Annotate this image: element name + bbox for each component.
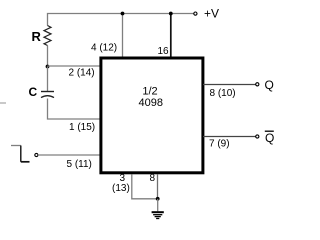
svg-text:(13): (13) xyxy=(112,183,130,194)
svg-text:16: 16 xyxy=(158,46,170,57)
svg-text:4 (12): 4 (12) xyxy=(91,43,117,54)
svg-text:4098: 4098 xyxy=(139,97,163,109)
op-amp U1 IC body 4098 xyxy=(101,58,203,173)
wire resistor bottom to node xyxy=(47,46,49,67)
svg-text:8: 8 xyxy=(150,173,156,184)
capacitor C xyxy=(41,92,54,98)
wire node to capacitor top xyxy=(47,67,49,92)
wire pin2 horizontal xyxy=(48,65,101,67)
terminal +V open circle xyxy=(194,12,197,15)
wire top rail from resistor top to +V terminal xyxy=(48,14,194,26)
svg-text:7 (9): 7 (9) xyxy=(209,138,230,149)
resistor R xyxy=(44,26,51,46)
wire pin3 down and right to ground node xyxy=(132,175,158,199)
wire pin7(9) output Qbar xyxy=(203,136,256,138)
terminal Qbar open circle xyxy=(256,135,259,138)
ground xyxy=(152,199,164,219)
svg-text:+V: +V xyxy=(204,7,219,21)
svg-text:2 (14): 2 (14) xyxy=(69,68,95,79)
svg-text:5 (11): 5 (11) xyxy=(67,159,92,170)
node junction dot ground xyxy=(156,197,160,201)
label 1/2 4098 xyxy=(139,86,163,109)
wire pin5 horizontal xyxy=(39,154,100,156)
wire pin4 vertical to top rail xyxy=(122,14,124,58)
wire capacitor bottom to pin1 corner xyxy=(48,99,101,120)
terminal Q open circle xyxy=(256,83,259,86)
wire pin8 down to ground node xyxy=(157,175,159,199)
svg-text:8 (10): 8 (10) xyxy=(210,88,236,99)
terminal input open circle xyxy=(35,153,38,156)
node junction dot pin16/top rail xyxy=(169,12,173,16)
svg-text:1 (15): 1 (15) xyxy=(69,122,95,133)
svg-text:1/2: 1/2 xyxy=(142,86,157,98)
node junction dot R/C/pin2 xyxy=(46,65,50,69)
svg-text:C: C xyxy=(29,85,38,99)
wire pin8(10) output Q xyxy=(203,84,256,86)
node junction dot pin4/top rail xyxy=(121,12,125,16)
label Qbar with overline xyxy=(265,131,275,145)
scan artifact dash left edge xyxy=(0,102,6,104)
svg-text:Q: Q xyxy=(265,78,274,92)
svg-text:Q: Q xyxy=(265,131,274,145)
svg-text:R: R xyxy=(32,29,42,44)
wire pin16 vertical to top rail xyxy=(170,14,172,58)
input pulse waveform symbol xyxy=(11,146,30,162)
